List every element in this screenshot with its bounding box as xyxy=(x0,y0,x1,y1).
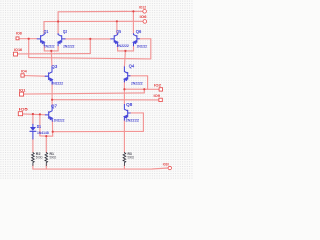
wire Q2 collector vertical xyxy=(57,12,59,34)
wire rail1 top xyxy=(58,10,143,13)
junction bend drop xyxy=(39,113,41,115)
wire rail B xyxy=(29,58,151,59)
wire emitter U pair2 xyxy=(118,46,134,51)
wire Q4 base box xyxy=(130,76,148,89)
junction rail1/IO12 stub xyxy=(132,10,134,12)
junction Q7 collector rail xyxy=(51,99,53,101)
wire IO5 line xyxy=(23,113,46,116)
terminal IO16 xyxy=(14,48,23,56)
terminal IO4 xyxy=(21,69,27,77)
svg-text:Q5: Q5 xyxy=(116,29,121,34)
terminal IO8 xyxy=(16,31,22,40)
wire IO8 to Q1 base xyxy=(19,38,37,40)
junction rail2/Q5 collector xyxy=(116,20,118,22)
transistor Q3 xyxy=(45,64,63,86)
svg-text:Q3: Q3 xyxy=(51,64,57,69)
svg-text:500Ω: 500Ω xyxy=(128,155,135,159)
junction R1 top xyxy=(45,135,47,137)
svg-text:IO2: IO2 xyxy=(154,84,161,88)
transistor Q8 (mirrored) xyxy=(124,102,139,123)
svg-text:IO5: IO5 xyxy=(19,108,28,112)
wire R2 bottom xyxy=(32,165,34,169)
terminal IO9 xyxy=(154,94,163,102)
svg-text:IO10: IO10 xyxy=(163,162,169,166)
svg-text:2N2222: 2N2222 xyxy=(63,45,75,49)
transistor Q6 (mirrored) xyxy=(133,29,147,49)
junction rail2/Q2 collector xyxy=(57,20,59,22)
wire IO8 net vertical xyxy=(28,39,30,58)
svg-text:Q2: Q2 xyxy=(63,29,67,34)
wire bottom rail xyxy=(33,168,168,169)
transistor Q2 (mirrored) xyxy=(58,29,75,49)
terminal IO2 xyxy=(154,84,163,92)
terminal IO12 xyxy=(139,6,146,13)
wire U1 tap to Q3 collector xyxy=(50,51,53,67)
svg-text:500Ω: 500Ω xyxy=(50,155,57,159)
wire Q5 collector vertical xyxy=(116,21,118,33)
transistor Q1 xyxy=(37,29,54,49)
wire Q6 collector vertical xyxy=(132,11,134,33)
svg-text:Q6: Q6 xyxy=(136,29,142,34)
wire U2 tap to Q4 collector xyxy=(124,51,125,67)
wire base-link riser xyxy=(89,39,91,54)
junction IO2 link xyxy=(143,88,145,90)
diode D1 xyxy=(30,124,49,139)
junction U2 tap xyxy=(124,50,126,52)
wire rail2 xyxy=(44,20,143,22)
transistor Q5 xyxy=(111,29,129,48)
svg-text:2N2222: 2N2222 xyxy=(137,45,147,49)
svg-text:IO6: IO6 xyxy=(140,15,147,19)
wire D1 anode drop xyxy=(32,114,34,125)
junction D1 anode xyxy=(32,113,34,115)
wire Q1 collector vertical xyxy=(43,22,45,34)
junction Q7 emitter/box rail xyxy=(52,131,54,133)
wire Q4 emitter down xyxy=(123,82,125,105)
wire IO16 to riser xyxy=(18,53,91,55)
svg-text:D1: D1 xyxy=(37,124,42,129)
wire Q8 emitter to R3 xyxy=(123,120,125,152)
svg-text:1N4148: 1N4148 xyxy=(37,131,49,135)
svg-text:Q1: Q1 xyxy=(44,29,49,34)
svg-text:2N2222: 2N2222 xyxy=(131,82,143,86)
wire Q6 base xyxy=(139,38,151,40)
resistor R3 xyxy=(123,152,135,166)
wire Q8 box rail xyxy=(53,130,144,132)
transistor Q7 xyxy=(45,104,64,123)
wire Q2 base to Q5 base xyxy=(64,38,111,40)
wire bend drop vertical xyxy=(39,114,41,136)
svg-text:2N2222: 2N2222 xyxy=(54,118,65,122)
transistor Q4 (mirrored) xyxy=(124,64,143,86)
svg-text:IO4: IO4 xyxy=(21,69,27,73)
svg-text:Q8: Q8 xyxy=(126,102,133,107)
wire R3 bottom xyxy=(123,165,125,169)
svg-text:IO12: IO12 xyxy=(139,6,146,10)
resistor R2 xyxy=(32,152,43,166)
terminal IO6 xyxy=(140,15,147,23)
wire Q7 emitter down xyxy=(40,121,53,136)
wire R1 top drop xyxy=(45,136,47,152)
svg-text:IO9: IO9 xyxy=(154,94,161,98)
terminal IO1 xyxy=(19,88,26,96)
svg-text:Q4: Q4 xyxy=(129,64,135,69)
wire IO2 link riser xyxy=(143,89,145,93)
svg-text:2N2222: 2N2222 xyxy=(44,44,54,48)
wire IO2 line xyxy=(124,88,159,90)
junction IO8 net drop xyxy=(28,38,30,40)
svg-text:IO16: IO16 xyxy=(14,48,22,52)
wire rail IO1 xyxy=(24,93,145,94)
wire D1 cathode down xyxy=(32,139,34,153)
svg-text:2N2222: 2N2222 xyxy=(51,82,63,86)
wire Q3 emitter down xyxy=(51,84,53,106)
wire R1 bottom xyxy=(45,165,47,169)
wire IO4 to Q3 base xyxy=(24,75,45,78)
wire Q8 base box xyxy=(130,113,143,131)
resistor R1 xyxy=(45,152,57,166)
junction base-link xyxy=(89,38,91,40)
svg-text:IO8: IO8 xyxy=(16,31,22,35)
svg-text:500Ω: 500Ω xyxy=(36,155,43,159)
wire rail B riser xyxy=(150,39,152,59)
junction Q4 emitter/IO2 xyxy=(123,88,125,90)
junction U1 tap xyxy=(50,50,52,52)
svg-text:2N2222: 2N2222 xyxy=(117,44,129,48)
svg-text:2N2222: 2N2222 xyxy=(126,119,140,123)
wire rail IO9 xyxy=(52,99,159,101)
terminal IO5 xyxy=(18,108,28,116)
terminal IO10 xyxy=(163,162,172,169)
svg-text:Q7: Q7 xyxy=(51,104,57,109)
wire emitter U pair1 xyxy=(44,46,58,51)
